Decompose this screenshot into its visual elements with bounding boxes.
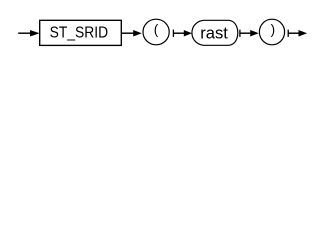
box ST_SRID: [40, 20, 122, 45]
background: [0, 0, 308, 58]
arrowhead out: [299, 30, 308, 37]
arrowhead into rast: [184, 30, 192, 37]
svg-text:): ): [271, 22, 276, 37]
svg-text:ST_SRID: ST_SRID: [50, 24, 109, 41]
wire rast to paren2: [240, 32, 251, 34]
svg-text:(: (: [154, 22, 159, 37]
arrowhead into ST_SRID box: [30, 30, 40, 37]
arrowhead into ): [250, 30, 259, 37]
junction tick after (: [172, 30, 174, 37]
variable rast stadium: [192, 20, 238, 45]
junction tick after rast: [239, 30, 241, 37]
arrowhead into (: [133, 30, 142, 37]
wire paren1 to rast: [173, 32, 184, 34]
wire box to paren1: [122, 32, 135, 34]
wire out: [288, 32, 299, 34]
svg-text:rast: rast: [200, 25, 228, 43]
junction tick after ): [287, 30, 289, 37]
terminal ) circle: [259, 19, 284, 45]
wire lead-in: [18, 32, 31, 34]
terminal ( circle: [143, 19, 169, 45]
